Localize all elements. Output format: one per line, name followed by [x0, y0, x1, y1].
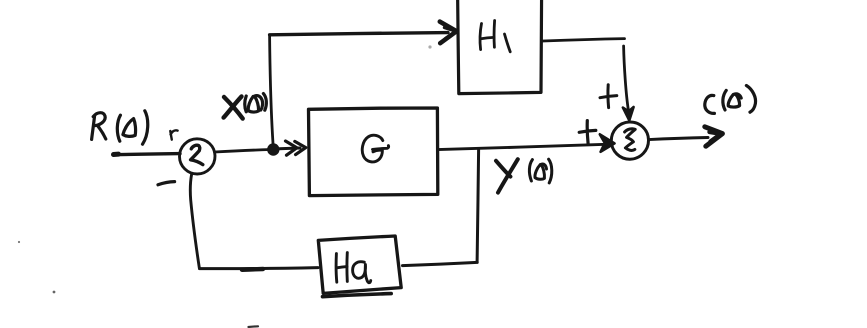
block G: [309, 108, 438, 196]
summing junction S1: [179, 139, 215, 174]
speck left: [53, 291, 56, 294]
arrowhead into H1: [440, 22, 457, 44]
wire corner down to S2: [624, 46, 629, 110]
wire Y pickoff down: [477, 150, 479, 262]
block H1: [458, 0, 542, 94]
wire H1 out to corner: [543, 39, 625, 41]
feedback bottom overlap stroke: [242, 267, 263, 272]
label H2: [336, 253, 371, 283]
label R(s): [92, 111, 148, 144]
minus sign: [158, 182, 175, 185]
summing junction S2: [611, 122, 648, 159]
wire S2 out: [649, 138, 708, 140]
sigma in S1: [191, 145, 203, 164]
label C(s): [705, 86, 756, 114]
arrow node to G: [279, 147, 300, 151]
label H1: [480, 21, 510, 52]
wire input R to summer: [114, 154, 181, 155]
wire summer to node: [215, 150, 272, 153]
faint mark near H1 arrow: [428, 45, 431, 48]
arrowhead into S2 left: [600, 134, 615, 152]
node X (pickoff dot): [267, 143, 279, 155]
wire G out to S2: [438, 144, 606, 149]
output arrowhead: [705, 127, 723, 146]
wire pickoff to H2 right: [403, 262, 478, 265]
wire feedback up to S1: [190, 174, 199, 268]
wire H2 to left (feedback bottom): [200, 268, 319, 269]
speck top-left of bottom area: [18, 241, 20, 243]
wire node up: [270, 37, 273, 144]
speck bottom dash: [249, 325, 259, 328]
label X(s): [224, 97, 243, 119]
label Y(s): [496, 159, 518, 192]
plus sign above S2: [600, 85, 617, 108]
H2 bottom double stroke: [323, 294, 392, 297]
arrowhead down into S2: [623, 107, 634, 120]
wire top to H1: [270, 33, 448, 35]
label G: [362, 135, 383, 162]
sigma in S2: [625, 129, 636, 151]
block H2: [318, 236, 401, 293]
small r mark: [170, 130, 177, 139]
plus sign left of S2: [579, 121, 596, 144]
